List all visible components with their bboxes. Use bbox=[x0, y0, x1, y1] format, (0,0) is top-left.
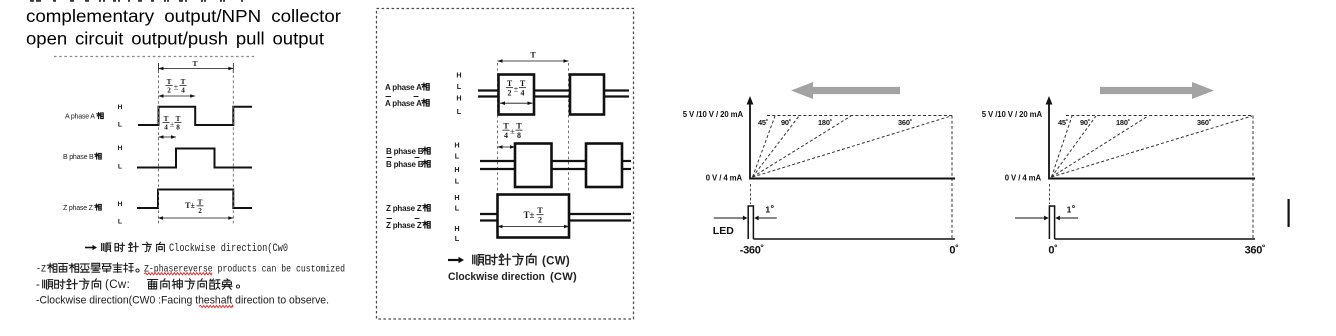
svg-text:4: 4 bbox=[164, 123, 168, 131]
svg-text:L: L bbox=[455, 204, 460, 213]
svg-text:180˚: 180˚ bbox=[818, 118, 832, 127]
svg-text:B phase B: B phase B bbox=[386, 147, 424, 156]
svg-text:5 V /10 V / 20 mA: 5 V /10 V / 20 mA bbox=[683, 110, 744, 119]
svg-text:0˚: 0˚ bbox=[949, 245, 958, 257]
svg-text:5 V /10 V / 20 mA: 5 V /10 V / 20 mA bbox=[982, 110, 1043, 119]
svg-text:complementary output/NPN colle: complementary output/NPN collector bbox=[26, 6, 341, 26]
svg-text:T: T bbox=[516, 122, 522, 131]
svg-text:L: L bbox=[457, 82, 462, 91]
svg-text:A phase A: A phase A bbox=[385, 83, 422, 92]
svg-text:1: 1 bbox=[765, 205, 770, 215]
svg-text:Z phase Z: Z phase Z bbox=[63, 205, 94, 212]
svg-text:±: ± bbox=[170, 120, 174, 129]
svg-text:90˚: 90˚ bbox=[1080, 118, 1090, 127]
svg-text:-Z: -Z bbox=[36, 264, 46, 276]
svg-text:H: H bbox=[118, 201, 123, 208]
svg-text:L: L bbox=[455, 234, 460, 243]
svg-text:0˚: 0˚ bbox=[1048, 245, 1057, 257]
svg-text:2: 2 bbox=[508, 88, 512, 97]
svg-text:45˚: 45˚ bbox=[758, 118, 768, 127]
svg-text:45˚: 45˚ bbox=[1058, 118, 1068, 127]
svg-text:A phase A: A phase A bbox=[385, 99, 422, 108]
svg-text:Z phase Z: Z phase Z bbox=[386, 204, 422, 213]
svg-text:T: T bbox=[167, 78, 172, 86]
svg-text:H: H bbox=[454, 165, 459, 174]
svg-text:T: T bbox=[164, 115, 169, 123]
svg-text:8: 8 bbox=[176, 123, 180, 131]
svg-text:8: 8 bbox=[517, 131, 521, 140]
svg-text:T: T bbox=[192, 59, 197, 68]
svg-text:360˚: 360˚ bbox=[1197, 118, 1211, 127]
svg-text:±: ± bbox=[514, 84, 519, 94]
svg-text:B phase B: B phase B bbox=[63, 154, 94, 161]
svg-text:4: 4 bbox=[181, 86, 185, 94]
svg-text:1: 1 bbox=[1067, 205, 1072, 215]
svg-text:Clockwise direction(Cw0: Clockwise direction(Cw0 bbox=[169, 243, 288, 255]
svg-text:T: T bbox=[503, 122, 509, 131]
svg-text:(CW): (CW) bbox=[542, 256, 570, 268]
svg-text:H: H bbox=[456, 94, 461, 103]
svg-text:-: - bbox=[36, 279, 40, 291]
svg-text:L: L bbox=[455, 177, 460, 186]
svg-text:±: ± bbox=[174, 83, 179, 92]
svg-text:T: T bbox=[520, 79, 526, 88]
svg-text:open circuit output/push pull: open circuit output/push pull output bbox=[26, 29, 324, 49]
svg-text:T: T bbox=[530, 51, 536, 60]
svg-text:(Cw:: (Cw: bbox=[105, 279, 130, 291]
svg-text:T: T bbox=[507, 79, 513, 88]
svg-text:90˚: 90˚ bbox=[781, 118, 791, 127]
svg-text:2: 2 bbox=[538, 215, 542, 224]
svg-text:L: L bbox=[118, 164, 122, 171]
svg-text:(CW): (CW) bbox=[550, 271, 577, 283]
svg-text:360˚: 360˚ bbox=[1245, 245, 1266, 257]
svg-text:T: T bbox=[537, 206, 543, 215]
svg-text:2: 2 bbox=[167, 86, 171, 94]
svg-text:A phase A: A phase A bbox=[65, 114, 95, 121]
svg-text:T: T bbox=[176, 115, 181, 123]
svg-text:L: L bbox=[455, 152, 460, 161]
svg-text:T±: T± bbox=[185, 201, 195, 210]
svg-text:-Clockwise direction(CW0 :Faci: -Clockwise direction(CW0 :Facing theshaf… bbox=[36, 295, 329, 307]
svg-text:H: H bbox=[118, 104, 123, 111]
svg-text:±: ± bbox=[510, 126, 515, 136]
svg-text:LED: LED bbox=[713, 225, 734, 237]
svg-text:H: H bbox=[454, 224, 459, 233]
svg-text:Clockwise direction: Clockwise direction bbox=[448, 271, 545, 283]
svg-text:B phase B: B phase B bbox=[386, 160, 424, 169]
svg-text:H: H bbox=[118, 145, 123, 152]
svg-text:T: T bbox=[181, 78, 186, 86]
svg-text:0 V / 4 mA: 0 V / 4 mA bbox=[706, 174, 743, 183]
svg-text:-360˚: -360˚ bbox=[740, 245, 764, 257]
svg-text:H: H bbox=[454, 193, 459, 202]
svg-text:L: L bbox=[118, 219, 122, 226]
svg-text:360˚: 360˚ bbox=[898, 118, 912, 127]
svg-text:Z phase Z: Z phase Z bbox=[386, 221, 422, 230]
svg-text:T: T bbox=[198, 198, 203, 206]
svg-text:L: L bbox=[118, 122, 122, 129]
svg-text:H: H bbox=[456, 71, 461, 80]
svg-text:4: 4 bbox=[504, 131, 508, 140]
svg-text:T±: T± bbox=[524, 210, 535, 220]
svg-text:4: 4 bbox=[521, 88, 525, 97]
svg-text:0 V / 4 mA: 0 V / 4 mA bbox=[1005, 174, 1042, 183]
svg-text:2: 2 bbox=[198, 207, 202, 215]
svg-text:180˚: 180˚ bbox=[1116, 118, 1130, 127]
svg-text:H: H bbox=[454, 141, 459, 150]
svg-text:L: L bbox=[457, 107, 462, 116]
